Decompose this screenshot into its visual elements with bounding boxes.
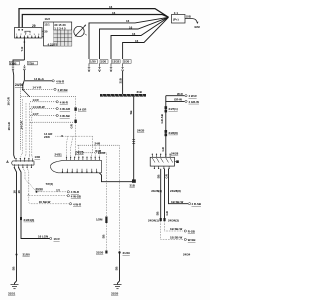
wire center ground bbox=[119, 253, 121, 282]
fan labels bbox=[109, 5, 139, 43]
svg-text:24/35: 24/35 bbox=[137, 129, 145, 133]
svg-text:14 GR-W: 14 GR-W bbox=[33, 105, 45, 109]
fan wire 3 bbox=[89, 17, 169, 59]
svg-text:11/1: 11/1 bbox=[44, 23, 50, 27]
dotted A out 3 bbox=[23, 168, 37, 196]
svg-text:4 W-R: 4 W-R bbox=[56, 79, 65, 83]
fan wire 4 bbox=[100, 17, 169, 59]
svg-text:16 R: 16 R bbox=[54, 237, 61, 241]
fuse box grid bbox=[44, 22, 72, 46]
fan wire 5 bbox=[111, 17, 169, 59]
junction dot left ground wire bbox=[16, 254, 18, 256]
ground left bbox=[15, 281, 17, 285]
wire SB from rail down bbox=[133, 97, 135, 180]
svg-text:4 31/21: 4 31/21 bbox=[48, 42, 58, 46]
splice rail 31B bbox=[100, 94, 146, 97]
svg-text:(P+): (P+) bbox=[173, 18, 179, 22]
svg-text:24/26: 24/26 bbox=[75, 151, 84, 155]
svg-text:W-R: W-R bbox=[177, 92, 184, 96]
inline connector on dashed bbox=[74, 107, 76, 110]
svg-text:S/B: S/B bbox=[186, 15, 191, 19]
svg-text:SB: SB bbox=[12, 266, 16, 270]
inline connector pair 2 bbox=[165, 130, 168, 133]
svg-text:SB: SB bbox=[115, 266, 119, 270]
row 14 B+A bbox=[25, 80, 52, 82]
svg-text:24/8: 24/8 bbox=[44, 135, 50, 139]
svg-text:31/55: 31/55 bbox=[111, 292, 119, 296]
svg-text:SB: SB bbox=[102, 234, 106, 238]
terminal square 31B bbox=[132, 179, 136, 182]
dashed vertical instr feed bbox=[75, 96, 77, 156]
svg-text:4 W-SB: 4 W-SB bbox=[58, 88, 68, 92]
dashed box verticals center bbox=[107, 145, 120, 252]
svg-text:7/7(2): 7/7(2) bbox=[46, 182, 54, 186]
switch bottom pins bbox=[17, 36, 39, 39]
ground center bbox=[118, 281, 120, 285]
connector labels row y=60 bbox=[90, 60, 132, 64]
svg-text:1/30: 1/30 bbox=[90, 60, 96, 64]
svg-text:1/30: 1/30 bbox=[101, 60, 107, 64]
svg-text:16: 16 bbox=[129, 25, 133, 29]
svg-text:24/28(8): 24/28(8) bbox=[170, 189, 181, 193]
svg-text:1B SB-W: 1B SB-W bbox=[171, 200, 183, 204]
inline connector on dashed 106 bbox=[105, 217, 107, 224]
svg-text:11/2: 11/2 bbox=[45, 17, 51, 21]
svg-text:29: 29 bbox=[32, 24, 36, 28]
svg-text:14 Y-R: 14 Y-R bbox=[33, 86, 43, 90]
right wire top branch 2 bbox=[166, 96, 185, 102]
svg-text:4 W-R: 4 W-R bbox=[60, 100, 69, 104]
instrument connector (wide) bbox=[50, 160, 101, 173]
wire top feed 2 bbox=[22, 15, 168, 28]
svg-text:16: 16 bbox=[13, 190, 17, 194]
svg-text:4 W-R: 4 W-R bbox=[73, 202, 82, 206]
svg-text:24/28: 24/28 bbox=[171, 151, 179, 155]
dotted columns to connector A bbox=[20, 99, 32, 158]
wire from switch pin down bbox=[23, 38, 25, 60]
inline connector pair 1 bbox=[165, 106, 168, 109]
wire 31B down to rail bbox=[122, 72, 124, 94]
svg-text:16: 16 bbox=[132, 32, 136, 36]
dotted feeds into wide connector bbox=[67, 136, 100, 157]
A bottom pins bbox=[14, 164, 31, 167]
svg-text:GR-SB: GR-SB bbox=[160, 114, 164, 123]
dotted below right connectors bbox=[161, 221, 184, 239]
fuse box labels bbox=[44, 23, 66, 34]
wire A out 2 bbox=[19, 168, 21, 217]
svg-text:31/50: 31/50 bbox=[23, 253, 31, 257]
svg-text:16 SB-W: 16 SB-W bbox=[39, 200, 51, 204]
fan wire 6 bbox=[123, 17, 169, 59]
wire from box 17 bbox=[185, 19, 198, 24]
svg-text:SB: SB bbox=[129, 110, 133, 114]
wire to interior switch bbox=[23, 71, 25, 89]
svg-text:4 W-SB: 4 W-SB bbox=[60, 114, 70, 118]
svg-text:14 P: 14 P bbox=[33, 112, 39, 116]
svg-text:14 R: 14 R bbox=[33, 98, 40, 102]
wire A out 1 to ground bbox=[14, 168, 16, 255]
svg-text:31B: 31B bbox=[119, 78, 123, 83]
svg-text:24/34: 24/34 bbox=[183, 253, 191, 257]
svg-text:4 W-GR: 4 W-GR bbox=[60, 107, 71, 111]
end terminal on dashed 106 bbox=[105, 251, 107, 254]
svg-text:24/34(4): 24/34(4) bbox=[24, 218, 35, 222]
wire 16GR left trunk bbox=[13, 71, 15, 159]
wires below right box bbox=[160, 169, 162, 218]
svg-text:GR-W: GR-W bbox=[174, 98, 182, 102]
svg-text:1/30: 1/30 bbox=[124, 60, 130, 64]
svg-text:14 GR: 14 GR bbox=[19, 120, 23, 129]
svg-text:7/7: 7/7 bbox=[56, 188, 60, 192]
svg-text:SB: SB bbox=[157, 174, 161, 178]
svg-text:14 GR: 14 GR bbox=[78, 107, 87, 111]
svg-text:16 LGN: 16 LGN bbox=[38, 235, 48, 239]
svg-text:1B SB-W: 1B SB-W bbox=[170, 236, 182, 240]
svg-text:24/31: 24/31 bbox=[55, 152, 63, 156]
svg-text:31B: 31B bbox=[137, 90, 142, 94]
svg-text:16: 16 bbox=[109, 5, 113, 9]
svg-text:4 W-SB: 4 W-SB bbox=[71, 194, 81, 198]
svg-text:16: 16 bbox=[135, 39, 139, 43]
right wire top branch 1 bbox=[166, 95, 185, 97]
connector box 17 bbox=[172, 15, 186, 24]
svg-text:31/50: 31/50 bbox=[96, 251, 104, 255]
connector forks top row bbox=[88, 63, 124, 71]
svg-text:24/2(8): 24/2(8) bbox=[169, 131, 178, 135]
svg-text:E/3B: E/3B bbox=[10, 61, 16, 65]
dotted row 3 bbox=[29, 194, 69, 204]
dashed rows with terminals bbox=[24, 89, 74, 122]
svg-text:4 GR-W: 4 GR-W bbox=[189, 100, 200, 104]
junction split bbox=[13, 60, 24, 65]
switch contact bbox=[25, 30, 31, 32]
svg-text:31/49: 31/49 bbox=[123, 251, 131, 255]
svg-text:20/19: 20/19 bbox=[36, 187, 44, 191]
fork left a bbox=[12, 65, 26, 71]
wide bottom pins bbox=[62, 169, 96, 173]
svg-text:4 W-R: 4 W-R bbox=[189, 94, 198, 98]
wide top pins bbox=[67, 157, 100, 161]
splice dot row 1 bbox=[36, 191, 38, 193]
svg-text:W-SB: W-SB bbox=[188, 238, 196, 242]
svg-text:30: 30 bbox=[44, 30, 48, 34]
clock symbol bbox=[74, 26, 84, 36]
inline connector ticks bbox=[132, 140, 135, 144]
svg-text:31B: 31B bbox=[130, 184, 135, 188]
wire instrument right down to 31B bbox=[99, 173, 132, 182]
label boxes left pair bbox=[9, 61, 37, 65]
svg-text:24/34(3): 24/34(3) bbox=[168, 218, 179, 222]
svg-text:16: 16 bbox=[112, 11, 116, 15]
dashed row mid bbox=[56, 135, 93, 137]
A top pins bbox=[16, 158, 32, 161]
interior switch bbox=[22, 89, 24, 91]
dashed rows right of instrument bbox=[78, 145, 120, 153]
box switch blades bbox=[152, 158, 173, 163]
svg-text:14 B+A: 14 B+A bbox=[34, 77, 45, 81]
switch box 29 bbox=[15, 28, 43, 39]
inline connectors right pair bbox=[160, 218, 162, 221]
right trunk wire bbox=[165, 101, 167, 157]
connector A bbox=[12, 161, 34, 165]
svg-text:16 GR: 16 GR bbox=[7, 96, 11, 105]
svg-text:1/2M: 1/2M bbox=[96, 218, 103, 222]
fuse box pins bbox=[42, 30, 44, 32]
svg-text:E/M: E/M bbox=[195, 25, 201, 29]
svg-text:31/51: 31/51 bbox=[8, 292, 16, 296]
inline connector 24/34 bbox=[20, 217, 22, 220]
svg-text:16: 16 bbox=[17, 190, 21, 194]
svg-text:R-SB: R-SB bbox=[188, 230, 195, 234]
svg-text:24/8: 24/8 bbox=[96, 149, 102, 153]
svg-text:24/28(2): 24/28(2) bbox=[151, 189, 162, 193]
svg-text:24/7(1): 24/7(1) bbox=[169, 107, 178, 111]
svg-text:16 GR: 16 GR bbox=[7, 121, 11, 130]
svg-text:4 R-SB: 4 R-SB bbox=[192, 202, 201, 206]
svg-text:16: 16 bbox=[126, 19, 130, 23]
svg-text:24/8: 24/8 bbox=[95, 141, 101, 145]
wire to 16 LGN bbox=[21, 220, 49, 238]
svg-text:24/36: 24/36 bbox=[15, 83, 24, 87]
svg-text:SB: SB bbox=[156, 211, 160, 215]
terminal right of box bbox=[176, 160, 179, 163]
svg-text:7/3A: 7/3A bbox=[28, 61, 35, 65]
dotted row 2 bbox=[28, 195, 67, 197]
svg-text:1/30: 1/30 bbox=[35, 155, 41, 159]
svg-text:1 2 3 4 5: 1 2 3 4 5 bbox=[54, 26, 66, 30]
box bottom pins bbox=[154, 166, 169, 169]
pin dots inside switch bbox=[18, 29, 23, 31]
wire top feed 1 bbox=[19, 9, 169, 28]
svg-text:13/32: 13/32 bbox=[112, 60, 120, 64]
svg-text:24/34(1): 24/34(1) bbox=[148, 218, 159, 222]
switch box 24/28 bbox=[150, 157, 174, 166]
svg-text:1:1: 1:1 bbox=[174, 11, 179, 15]
svg-text:1B SB-W: 1B SB-W bbox=[170, 227, 182, 231]
dot junction dashed 119 bbox=[118, 251, 120, 253]
dashed top edge long bbox=[21, 95, 76, 97]
box top pins bbox=[152, 154, 170, 158]
dashed outline left component bbox=[20, 87, 22, 151]
